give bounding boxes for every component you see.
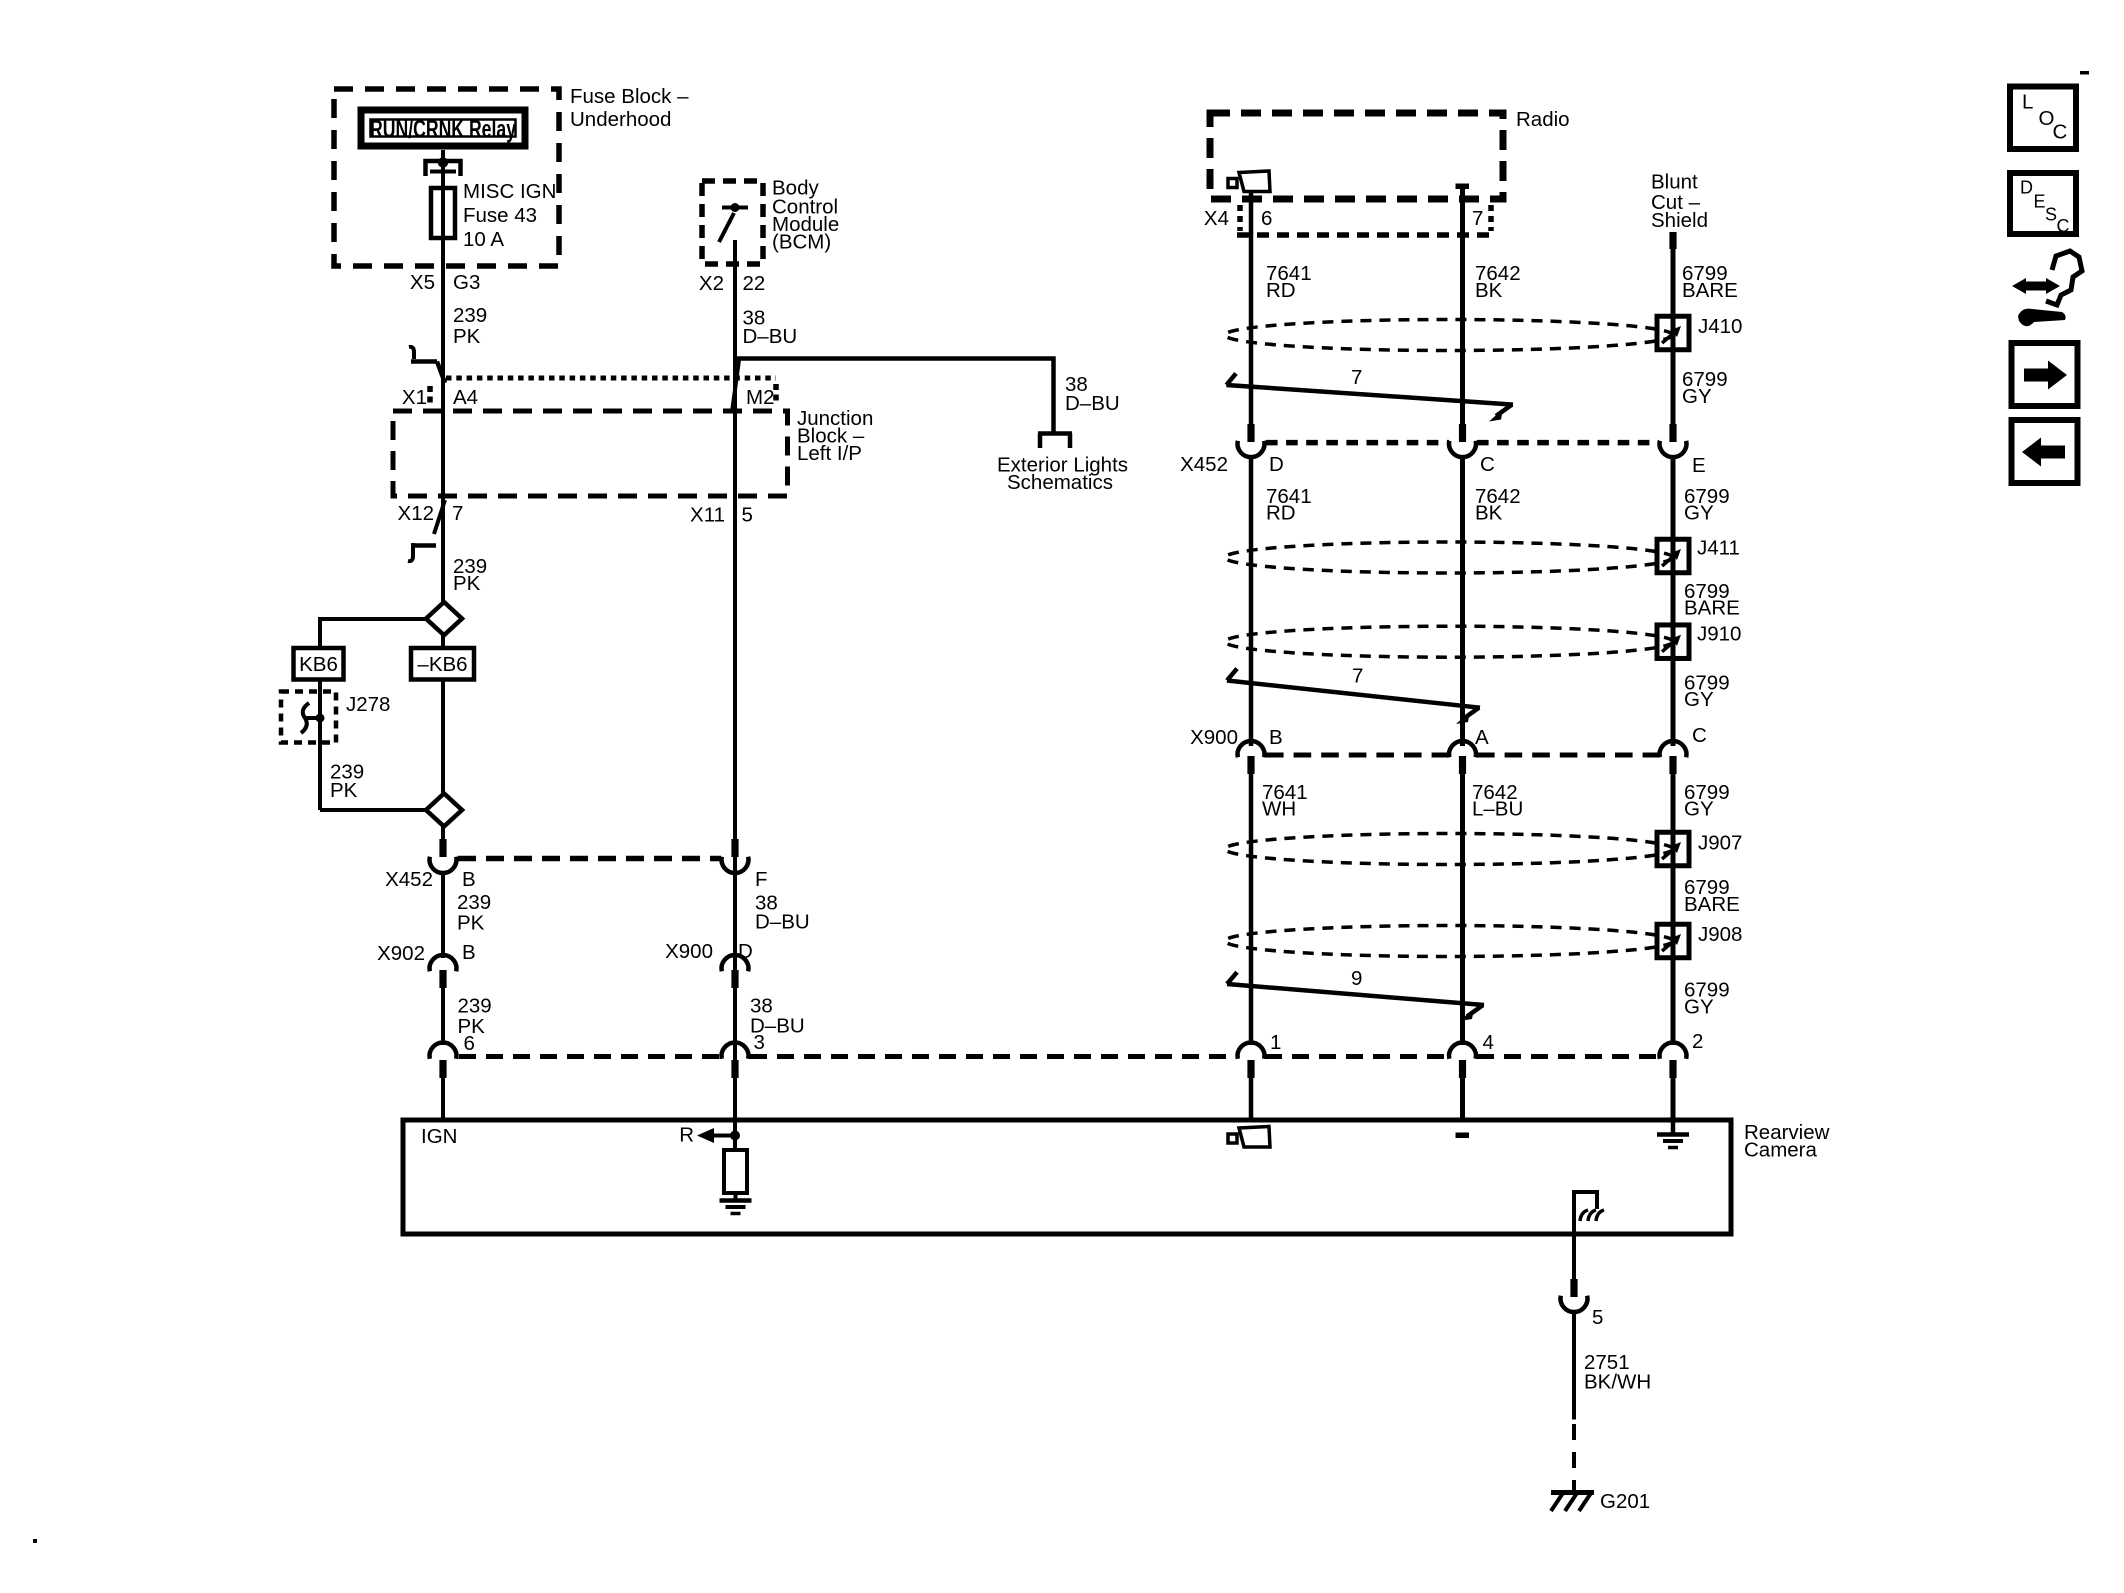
svg-text:6: 6 bbox=[464, 1032, 475, 1055]
svg-text:PK: PK bbox=[457, 912, 485, 935]
svg-text:L–BU: L–BU bbox=[1472, 798, 1523, 821]
svg-text:D–BU: D–BU bbox=[755, 911, 810, 934]
svg-text:BK: BK bbox=[1475, 279, 1503, 302]
svg-text:Fuse Block –: Fuse Block – bbox=[570, 85, 689, 108]
svg-text:PK: PK bbox=[453, 325, 481, 348]
svg-text:RD: RD bbox=[1266, 502, 1296, 525]
svg-text:J908: J908 bbox=[1698, 923, 1742, 946]
svg-text:D: D bbox=[2020, 178, 2033, 198]
svg-text:X12: X12 bbox=[398, 502, 434, 525]
svg-text:X452: X452 bbox=[385, 868, 433, 891]
svg-text:A: A bbox=[1475, 726, 1489, 749]
svg-text:R: R bbox=[679, 1124, 694, 1147]
svg-text:F: F bbox=[755, 868, 768, 891]
svg-text:7: 7 bbox=[452, 502, 463, 525]
svg-text:Shield: Shield bbox=[1651, 209, 1708, 232]
svg-text:7: 7 bbox=[1352, 665, 1363, 688]
svg-text:PK: PK bbox=[330, 779, 358, 802]
svg-text:J910: J910 bbox=[1697, 623, 1741, 646]
svg-text:X1: X1 bbox=[402, 386, 427, 409]
svg-text:KB6: KB6 bbox=[299, 653, 338, 676]
svg-text:X5: X5 bbox=[410, 271, 435, 294]
svg-text:X2: X2 bbox=[699, 272, 724, 295]
svg-text:RUN/CRNK Relay: RUN/CRNK Relay bbox=[370, 116, 516, 144]
svg-text:J907: J907 bbox=[1698, 832, 1742, 855]
svg-text:RD: RD bbox=[1266, 279, 1296, 302]
svg-text:J411: J411 bbox=[1697, 537, 1740, 560]
svg-text:J278: J278 bbox=[346, 693, 390, 716]
svg-text:Radio: Radio bbox=[1516, 108, 1570, 131]
svg-text:S: S bbox=[2045, 205, 2057, 225]
svg-text:Fuse 43: Fuse 43 bbox=[463, 204, 537, 227]
svg-text:PK: PK bbox=[453, 572, 481, 595]
svg-text:BK/WH: BK/WH bbox=[1584, 1371, 1651, 1394]
svg-text:22: 22 bbox=[743, 272, 766, 295]
svg-text:MISC IGN: MISC IGN bbox=[463, 180, 556, 203]
svg-text:B: B bbox=[462, 941, 476, 964]
svg-text:GY: GY bbox=[1682, 385, 1712, 408]
svg-text:A4: A4 bbox=[453, 386, 478, 409]
svg-text:Schematics: Schematics bbox=[1007, 471, 1113, 494]
svg-text:X452: X452 bbox=[1180, 453, 1228, 476]
svg-text:7: 7 bbox=[1351, 366, 1362, 389]
svg-text:B: B bbox=[462, 868, 476, 891]
svg-text:5: 5 bbox=[742, 504, 753, 527]
svg-text:C: C bbox=[2053, 121, 2068, 144]
svg-text:J410: J410 bbox=[1698, 315, 1742, 338]
svg-text:WH: WH bbox=[1262, 798, 1296, 821]
svg-text:4: 4 bbox=[1483, 1031, 1494, 1054]
svg-text:D–BU: D–BU bbox=[743, 325, 798, 348]
svg-text:M2: M2 bbox=[746, 386, 774, 409]
svg-text:G201: G201 bbox=[1600, 1490, 1650, 1513]
svg-text:X900: X900 bbox=[665, 940, 713, 963]
svg-text:Underhood: Underhood bbox=[570, 108, 671, 131]
svg-text:–KB6: –KB6 bbox=[417, 653, 467, 676]
svg-text:10 A: 10 A bbox=[463, 228, 504, 251]
svg-text:G3: G3 bbox=[453, 271, 480, 294]
svg-text:D: D bbox=[1269, 453, 1284, 476]
svg-text:X11: X11 bbox=[690, 504, 725, 527]
svg-text:BARE: BARE bbox=[1684, 597, 1740, 620]
svg-text:7: 7 bbox=[1472, 207, 1483, 230]
svg-text:BK: BK bbox=[1475, 502, 1503, 525]
svg-text:C: C bbox=[2057, 216, 2070, 236]
svg-text:Camera: Camera bbox=[1744, 1139, 1818, 1162]
svg-text:BARE: BARE bbox=[1682, 279, 1738, 302]
svg-text:Left I/P: Left I/P bbox=[797, 442, 862, 465]
svg-text:BARE: BARE bbox=[1684, 893, 1740, 916]
svg-text:IGN: IGN bbox=[421, 1125, 457, 1148]
svg-text:GY: GY bbox=[1684, 798, 1714, 821]
svg-text:X902: X902 bbox=[377, 942, 425, 965]
svg-text:C: C bbox=[1692, 724, 1707, 747]
svg-text:6: 6 bbox=[1261, 207, 1272, 230]
svg-text:2: 2 bbox=[1692, 1030, 1703, 1053]
svg-text:GY: GY bbox=[1684, 502, 1714, 525]
svg-text:GY: GY bbox=[1684, 688, 1714, 711]
svg-text:E: E bbox=[1692, 454, 1706, 477]
svg-text:5: 5 bbox=[1592, 1306, 1603, 1329]
svg-text:E: E bbox=[2034, 192, 2046, 212]
svg-text:GY: GY bbox=[1684, 996, 1714, 1019]
svg-text:X900: X900 bbox=[1190, 726, 1238, 749]
svg-text:239: 239 bbox=[453, 304, 487, 327]
svg-text:1: 1 bbox=[1270, 1031, 1281, 1054]
svg-text:D–BU: D–BU bbox=[1065, 392, 1120, 415]
svg-text:3: 3 bbox=[754, 1031, 765, 1054]
svg-text:C: C bbox=[1480, 453, 1495, 476]
svg-text:9: 9 bbox=[1351, 967, 1362, 990]
svg-text:L: L bbox=[2022, 91, 2033, 114]
svg-text:B: B bbox=[1269, 726, 1283, 749]
svg-text:(BCM): (BCM) bbox=[772, 231, 831, 254]
svg-text:X4: X4 bbox=[1204, 207, 1229, 230]
